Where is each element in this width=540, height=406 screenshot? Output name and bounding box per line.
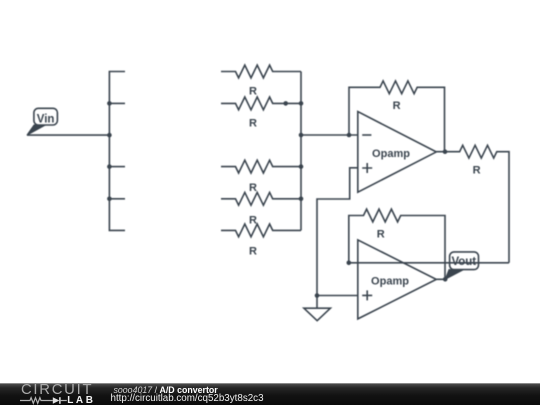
svg-text:Vin: Vin <box>37 113 55 125</box>
svg-text:Opamp: Opamp <box>371 275 409 287</box>
svg-text:R: R <box>393 100 401 112</box>
svg-text:R: R <box>249 214 257 226</box>
svg-text:R: R <box>377 229 385 241</box>
svg-text:R: R <box>249 86 257 98</box>
svg-text:Vout: Vout <box>451 256 476 268</box>
svg-text:R: R <box>249 182 257 194</box>
svg-text:R: R <box>473 165 481 177</box>
svg-text:R: R <box>249 117 257 129</box>
svg-text:Opamp: Opamp <box>372 148 410 160</box>
svg-text:R: R <box>249 246 257 258</box>
